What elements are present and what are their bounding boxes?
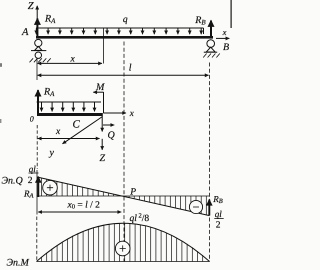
support A: base line bbox=[31, 50, 46, 52]
Q diagram: minus circle bbox=[189, 200, 202, 213]
svg-text:2: 2 bbox=[216, 220, 221, 230]
FBD: left dashed tick bbox=[36, 125, 38, 169]
right end dashed line bbox=[209, 63, 211, 262]
Z axis (top beam) bbox=[36, 6, 38, 35]
FBD: cut edge vertical bbox=[103, 92, 105, 113]
ql/2 right fraction bar bbox=[214, 217, 223, 219]
dimension x0 bbox=[38, 211, 121, 213]
Q diagram: left axis bbox=[36, 170, 38, 215]
M diagram: plus circle bbox=[115, 241, 130, 256]
svg-text:x: x bbox=[129, 108, 134, 118]
M diagram: hatching bbox=[42, 223, 203, 262]
FBD: shear force Q arrow bbox=[101, 116, 103, 132]
svg-text:Z: Z bbox=[28, 1, 34, 12]
FBD: short x arrow at cut bbox=[103, 124, 114, 126]
support A: triangle bbox=[35, 46, 42, 50]
ql/2 left fraction bar bbox=[29, 172, 39, 174]
FBD: moment M arrow bbox=[93, 91, 103, 93]
svg-text:x: x bbox=[222, 27, 227, 37]
support A: ground hatching bbox=[30, 58, 51, 62]
FBD: y axis diagonal bbox=[63, 117, 103, 144]
svg-text:B: B bbox=[223, 42, 229, 53]
scan speck left edge 1 bbox=[0, 63, 2, 67]
svg-text:A: A bbox=[21, 27, 29, 38]
svg-text:Эп.Q: Эп.Q bbox=[2, 176, 24, 187]
FBD: beam segment bbox=[37, 113, 103, 116]
scan speck left edge 2 bbox=[0, 119, 1, 123]
svg-text:0: 0 bbox=[30, 114, 34, 123]
distributed load q arrows bbox=[36, 28, 201, 34]
tick at left of dimensions bbox=[36, 59, 38, 80]
FBD: reaction arrow RA bbox=[37, 90, 39, 113]
FBD: x axis at cut bbox=[103, 112, 126, 114]
svg-text:ql: ql bbox=[215, 209, 223, 219]
mid-span dashed line bbox=[123, 42, 125, 262]
svg-text:C: C bbox=[73, 119, 81, 131]
M diagram: parabola bbox=[37, 223, 210, 261]
left axis dashed continuation bbox=[36, 217, 38, 262]
Q diagram: RA arrow bbox=[37, 177, 39, 197]
Q diagram: hatching bbox=[42, 178, 207, 215]
reaction arrow RB (top beam) bbox=[210, 21, 212, 36]
svg-text:2: 2 bbox=[28, 176, 33, 186]
svg-text:Z: Z bbox=[100, 153, 106, 164]
FBD: load line bbox=[37, 101, 101, 103]
beam AB bbox=[36, 36, 213, 39]
svg-text:Q: Q bbox=[108, 130, 116, 141]
support B: triangle bbox=[206, 47, 215, 52]
M diagram: baseline bbox=[37, 261, 210, 263]
svg-text:x0 = l / 2: x0 = l / 2 bbox=[67, 201, 101, 211]
Q diagram: RB arrow bbox=[208, 200, 210, 216]
x axis (top right) bbox=[216, 37, 229, 39]
FBD: Z axis arrow bbox=[101, 139, 103, 150]
svg-text:l: l bbox=[129, 63, 132, 74]
svg-text:y: y bbox=[49, 148, 55, 159]
scan artifact right edge bbox=[230, 0, 232, 28]
FBD: load arrows bbox=[42, 102, 95, 111]
support A: roller bbox=[35, 52, 41, 58]
svg-text:x: x bbox=[70, 55, 76, 65]
Q diagram: shear line bbox=[37, 177, 210, 216]
Q diagram: plus circle bbox=[43, 180, 58, 195]
FBD: dimension x bbox=[38, 138, 100, 140]
support A: hinge circle bbox=[35, 39, 42, 46]
svg-text:M: M bbox=[95, 82, 105, 93]
distributed load q line bbox=[36, 27, 204, 29]
svg-text:Эп.М: Эп.М bbox=[7, 257, 30, 268]
svg-text:ql: ql bbox=[29, 164, 37, 174]
Q diagram: baseline bbox=[37, 195, 210, 197]
dimension l (top) bbox=[38, 74, 209, 76]
reaction arrow RA (top beam) bbox=[36, 19, 38, 38]
svg-text:x: x bbox=[55, 127, 61, 137]
dimension x (top) bbox=[38, 62, 102, 64]
svg-text:P: P bbox=[129, 187, 136, 197]
svg-text:q: q bbox=[123, 15, 128, 25]
support B: ground hatching bbox=[204, 51, 217, 53]
support B: hinge circle bbox=[207, 40, 215, 48]
section line at distance x bbox=[102, 28, 104, 64]
